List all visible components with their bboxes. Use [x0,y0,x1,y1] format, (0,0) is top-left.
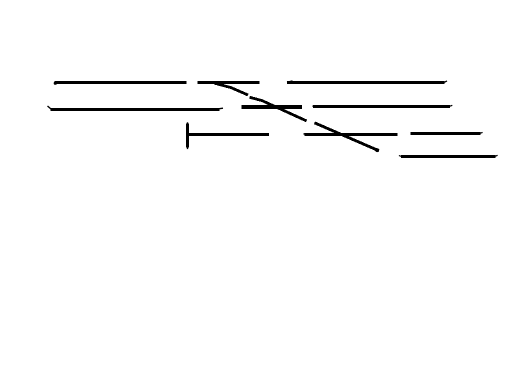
wire W1 start dot [54,82,57,85]
wire W6 start taper [313,105,321,107]
wire D1 (diagonal stroke, upper piece) [215,83,249,95]
wire W10 (row 4 bottom-right segment) [401,155,496,158]
wire W9 end tick [480,131,482,134]
wire W2 (row 1 middle segment) [198,81,260,84]
wire W10 end tick [495,154,497,157]
wire W4 (row 2 left segment) [51,108,220,111]
wire W1 (row 1 left segment) [55,81,187,84]
wire W5 (row 2 middle segment) [242,105,303,109]
wire W9 (row 3 far-right short segment) [411,132,481,135]
node terminal T1 bottom tip [187,148,189,150]
wire D3 end blob [375,148,379,152]
wire W3 start tick [287,81,293,82]
wire W3 end tick [444,81,447,82]
wire W8 (row 3 right segment) [305,133,398,136]
node terminal T1 top tip [187,122,189,124]
wire W4 start hook [48,106,52,109]
wire D2 (diagonal stroke, middle piece) [250,97,307,121]
wire W10 start tick [399,155,401,158]
wire D3 (diagonal stroke, lower piece) [315,123,380,151]
wire W6 end tick [450,104,452,107]
wire W7 (row 3 left segment from terminal) [188,133,269,136]
wire W6 (row 2 right segment) [313,105,450,108]
node terminal T1 vertical bar [186,124,189,148]
wire W3 (row 1 right segment) [287,81,445,84]
wire W4 end taper [219,107,223,110]
wire W8 start taper [304,133,312,135]
